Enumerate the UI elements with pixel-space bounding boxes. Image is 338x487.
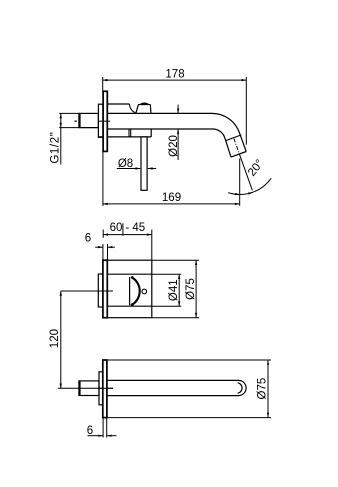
inlet pipe view 3 xyxy=(79,381,99,396)
dim G1/2 extension line bottom xyxy=(59,127,98,129)
spout tube bottom edge with bend xyxy=(107,129,231,157)
centre line over flange view 3 xyxy=(98,387,113,389)
angle 20 deg arrowheads xyxy=(235,193,240,195)
spout end face xyxy=(231,152,246,158)
dim 6 view2 arrows xyxy=(95,246,103,248)
dim 6 view3 arrows xyxy=(88,435,104,437)
handle knob top cap xyxy=(141,103,148,106)
svg-text:- 45: - 45 xyxy=(125,222,145,234)
aerator joint line xyxy=(226,135,241,141)
lever handle arc xyxy=(132,277,140,305)
dim O41 dimension line xyxy=(178,274,180,306)
dim 178 extension line right (spout outer) xyxy=(245,77,247,145)
dim 6 view3 extension lines xyxy=(102,418,104,437)
svg-text:6: 6 xyxy=(85,233,91,245)
concealed body behind wall xyxy=(98,104,103,137)
dim O75 view2 dimension line xyxy=(195,260,197,318)
inlet pipe xyxy=(79,113,99,127)
dim 60-45 dimension line xyxy=(103,234,152,236)
dim G1/2 dimension line with leader xyxy=(60,113,62,164)
handle knob xyxy=(136,105,151,114)
body centre mark crossing flange view 1 xyxy=(99,120,111,122)
svg-text:Ø75: Ø75 xyxy=(185,278,197,300)
svg-text:Ø41: Ø41 xyxy=(168,279,180,301)
svg-text:G1/2": G1/2" xyxy=(50,132,62,164)
spout tube top edge with bend xyxy=(107,113,246,151)
lever handle arc end dots xyxy=(131,276,134,279)
concealed body view 2 xyxy=(98,274,103,307)
inner face ring bottom edge xyxy=(107,305,152,307)
dim 60-45 extension right down to body xyxy=(151,230,153,261)
svg-text:178: 178 xyxy=(165,68,184,80)
dim 169 extension line left (wall face) xyxy=(102,152,104,206)
lever handle chord xyxy=(129,277,131,305)
dim 169 dimension line xyxy=(103,203,240,205)
body barrel view 2 xyxy=(107,260,152,318)
centre line over flange view 2 xyxy=(98,290,113,292)
dim O20 dimension line upper xyxy=(177,105,179,114)
svg-text:Ø75: Ø75 xyxy=(256,378,268,400)
centre line view 2 xyxy=(61,290,113,292)
dim 178 extension line left (wall face) xyxy=(102,77,104,91)
dim 178 dimension line xyxy=(103,79,247,81)
spout rounded end cap xyxy=(239,380,247,395)
dim 60-45 intermediate tick xyxy=(122,223,124,235)
inlet pipe centre mark xyxy=(74,120,77,122)
aerator inner arc xyxy=(238,383,242,394)
dim O75 view2 extension lines xyxy=(152,259,199,261)
main body bottom edge xyxy=(98,136,151,138)
dim O41 extension lines xyxy=(152,273,181,275)
lever rod xyxy=(141,137,147,190)
main body top edge xyxy=(107,103,129,105)
dim O20 dimension line lower xyxy=(177,129,179,160)
spout tube view 3 top edge xyxy=(107,379,239,381)
svg-text:Ø20: Ø20 xyxy=(168,135,180,157)
spout axis dash-dot inside aerator xyxy=(234,139,239,153)
temperature indicator dot xyxy=(142,289,147,294)
wall flange plate view 1 xyxy=(103,91,107,151)
inner face ring top edge xyxy=(107,273,152,275)
dim O8 leader right xyxy=(148,168,156,170)
dim 60-45 extension left xyxy=(102,230,104,238)
concealed body view 3 xyxy=(99,372,103,405)
inlet pipe end cap view 3 xyxy=(79,381,81,396)
cartridge housing divider xyxy=(128,129,130,137)
dim G1/2 extension line top xyxy=(59,112,79,114)
wall flange plate view 3 xyxy=(103,360,107,418)
angle 20 deg arc xyxy=(228,178,271,194)
dim O75 view3 extension lines xyxy=(105,359,271,361)
dim 120 dimension line xyxy=(60,291,62,388)
dim 6 view2 extension lines xyxy=(102,244,104,260)
svg-text:169: 169 xyxy=(162,192,181,204)
spout tube view 3 bottom edge xyxy=(107,395,239,397)
centre line view 3 xyxy=(58,387,113,389)
spout axis solid extension below tip xyxy=(239,154,252,191)
cartridge housing right edge xyxy=(150,129,152,137)
dim 169 extension line right / vertical angle reference xyxy=(239,159,241,206)
wall flange plate view 2 xyxy=(103,260,107,318)
dim O8 leader left xyxy=(117,168,141,170)
svg-text:120: 120 xyxy=(49,329,61,348)
dim O75 view3 dimension line xyxy=(267,360,269,418)
inlet pipe end cap xyxy=(79,113,81,127)
body to cartridge transition curve xyxy=(129,104,135,113)
svg-text:60: 60 xyxy=(110,222,123,234)
